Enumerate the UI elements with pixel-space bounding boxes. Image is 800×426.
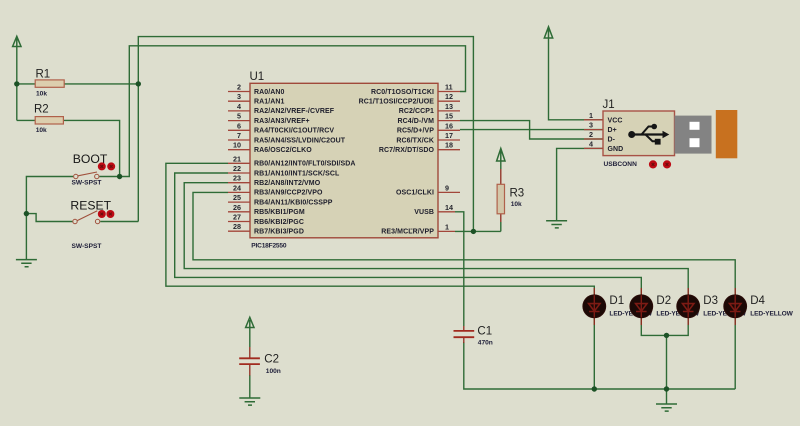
wire J1 GND to ground <box>557 148 603 220</box>
node D2/D3 mid junction <box>664 333 669 338</box>
svg-text:RB7/KBI3/PGD: RB7/KBI3/PGD <box>254 229 304 236</box>
svg-text:RC5/D+/VP: RC5/D+/VP <box>397 128 434 135</box>
wire D1 cathode down <box>593 316 595 389</box>
ground under J1 <box>546 221 567 228</box>
svg-text:RA4/T0CKI/C1OUT/RCV: RA4/T0CKI/C1OUT/RCV <box>254 128 334 135</box>
svg-text:VCC: VCC <box>608 117 623 124</box>
svg-text:24: 24 <box>233 183 241 192</box>
svg-text:12: 12 <box>445 92 453 101</box>
wire R1 left <box>17 83 35 85</box>
diode D4 <box>724 288 747 325</box>
svg-text:RA0/AN0: RA0/AN0 <box>254 89 285 96</box>
resistor R3 <box>497 169 524 222</box>
svg-text:OSC1/CLKI: OSC1/CLKI <box>396 190 434 197</box>
svg-text:9: 9 <box>445 183 449 192</box>
svg-text:28: 28 <box>233 222 241 231</box>
op-amp U1 PIC18F2550 body <box>250 71 439 250</box>
wire pin14 VUSB to C1 <box>455 212 464 326</box>
svg-text:3: 3 <box>237 92 241 101</box>
wire C1 bottom to LED ground bus <box>464 342 735 389</box>
svg-text:J1: J1 <box>603 99 615 111</box>
wire C2 bottom lead <box>249 375 251 398</box>
wire D2 cathode to mid node <box>641 316 666 335</box>
power arrow top-right <box>544 27 552 38</box>
node R1 left junction <box>14 81 19 86</box>
J1 red markers <box>649 160 657 168</box>
svg-text:4: 4 <box>237 102 241 111</box>
svg-text:26: 26 <box>233 203 241 212</box>
capacitor C1 <box>454 326 493 347</box>
svg-text:RC0/T1OSO/T1CKI: RC0/T1OSO/T1CKI <box>371 89 434 96</box>
svg-text:22: 22 <box>233 164 241 173</box>
J1 USB metal shell <box>675 116 712 154</box>
power arrow R3 <box>497 149 505 162</box>
U1 left pin numbers <box>233 83 241 232</box>
svg-text:11: 11 <box>445 83 453 92</box>
wire pin21 RB0 to D1 <box>166 163 594 297</box>
J1 USB plug body <box>716 110 738 158</box>
svg-text:GND: GND <box>608 146 624 153</box>
svg-text:RC7/RX/DT/SDO: RC7/RX/DT/SDO <box>379 147 435 154</box>
wire VCC rail left (arrow to R1/R2) <box>16 47 18 121</box>
U1 right pin numbers <box>445 83 453 232</box>
svg-text:7: 7 <box>237 131 241 140</box>
svg-text:13: 13 <box>445 102 453 111</box>
svg-text:C1: C1 <box>477 326 492 338</box>
svg-text:25: 25 <box>233 193 241 202</box>
svg-text:D+: D+ <box>608 127 617 134</box>
svg-text:RA1/AN1: RA1/AN1 <box>254 99 285 106</box>
LED D3 labels <box>703 295 746 318</box>
wire BOOT left to ground rail <box>26 177 73 260</box>
svg-text:RC6/TX/CK: RC6/TX/CK <box>396 137 434 144</box>
power arrow C2 <box>246 317 254 327</box>
wire R1/RESET net vertical and top run to MCLR <box>138 37 473 232</box>
svg-text:16: 16 <box>445 121 453 130</box>
svg-text:5: 5 <box>237 112 241 121</box>
LED D1 labels <box>609 295 652 318</box>
svg-text:R2: R2 <box>34 104 49 116</box>
svg-text:10k: 10k <box>36 91 47 98</box>
U1 left pin names <box>254 89 356 236</box>
wire R3 top stem <box>500 161 502 169</box>
svg-text:SW-SPST: SW-SPST <box>72 180 102 187</box>
svg-text:RB4/AN11/KBI0/CSSPP: RB4/AN11/KBI0/CSSPP <box>254 199 333 206</box>
diode D1 <box>583 288 606 325</box>
svg-text:27: 27 <box>233 213 241 222</box>
wire R2 left <box>17 119 35 121</box>
svg-text:R1: R1 <box>36 69 51 81</box>
svg-text:17: 17 <box>445 131 453 140</box>
wire pin1 MCLR to R3 <box>455 230 501 232</box>
wire BOOT right to top bus to pin11 <box>99 46 465 177</box>
U1 right pin stubs <box>438 92 460 232</box>
svg-text:100n: 100n <box>266 368 281 375</box>
svg-text:2: 2 <box>589 130 593 139</box>
wire pin16 RC5 to J1 D+ <box>460 129 603 131</box>
svg-text:470n: 470n <box>478 340 493 347</box>
connector J1 USBCONN body <box>603 99 675 168</box>
svg-text:LED-YELLOW: LED-YELLOW <box>750 311 793 318</box>
node D1 ground junction <box>592 386 597 391</box>
svg-text:RB6/KBI2/PGC: RB6/KBI2/PGC <box>254 219 304 226</box>
wire C2 top lead <box>249 328 251 348</box>
svg-text:RA2/AN2/VREF-/CVREF: RA2/AN2/VREF-/CVREF <box>254 108 335 115</box>
svg-text:R3: R3 <box>510 188 525 200</box>
wire R3 lead bottom green part <box>500 222 502 231</box>
wire ground rail jog to RESET left <box>26 214 72 222</box>
svg-text:SW-SPST: SW-SPST <box>72 243 102 250</box>
J1 pin numbers <box>589 111 593 149</box>
wire pin24 RB3 to D4 <box>193 192 735 297</box>
svg-text:C2: C2 <box>264 354 279 366</box>
svg-text:4: 4 <box>589 139 593 148</box>
svg-text:10: 10 <box>233 141 241 150</box>
svg-text:RC2/CCP1: RC2/CCP1 <box>399 108 434 115</box>
svg-text:RA5/AN4/SS/LVDIN/C2OUT: RA5/AN4/SS/LVDIN/C2OUT <box>254 137 346 144</box>
wire D4 cathode down <box>734 316 736 389</box>
svg-text:10k: 10k <box>511 201 522 208</box>
svg-text:D2: D2 <box>656 295 671 307</box>
wire mid node down to ground <box>666 335 668 404</box>
svg-text:6: 6 <box>237 121 241 130</box>
svg-text:1: 1 <box>445 222 449 231</box>
svg-text:3: 3 <box>589 121 593 130</box>
node BOOT junction <box>117 174 122 179</box>
svg-text:RB3/AN9/CCP2/VPO: RB3/AN9/CCP2/VPO <box>254 190 323 197</box>
wire pin22 RB1 to D2 <box>175 173 642 297</box>
svg-text:D1: D1 <box>609 295 624 307</box>
svg-text:RA3/AN3/VREF+: RA3/AN3/VREF+ <box>254 118 310 125</box>
svg-text:2: 2 <box>237 83 241 92</box>
switch RESET SW-SPST <box>70 199 114 251</box>
U1 right pin names <box>359 89 435 236</box>
diode D3 <box>677 288 700 325</box>
diode D2 <box>630 288 653 325</box>
J1 USB trident icon <box>632 127 665 142</box>
svg-text:14: 14 <box>445 203 453 212</box>
wire R1 output to top bus <box>64 83 138 85</box>
svg-text:18: 18 <box>445 141 453 150</box>
svg-text:USBCONN: USBCONN <box>604 161 638 168</box>
svg-text:RE3/MCLR/VPP: RE3/MCLR/VPP <box>381 229 434 236</box>
svg-text:PIC18F2550: PIC18F2550 <box>251 243 287 250</box>
wire pin23 RB2 to D3 <box>184 183 688 297</box>
svg-text:VUSB: VUSB <box>414 209 434 216</box>
U1 left pin stubs <box>228 92 250 232</box>
ground under LEDs <box>656 404 677 411</box>
svg-text:D3: D3 <box>703 295 718 307</box>
svg-text:RC4/D-/VM: RC4/D-/VM <box>398 118 435 125</box>
LED D4 labels <box>750 295 793 318</box>
svg-text:RC1/T1OSI/CCP2/UOE: RC1/T1OSI/CCP2/UOE <box>359 99 435 106</box>
svg-text:U1: U1 <box>250 71 265 83</box>
LED D2 labels <box>656 295 699 318</box>
svg-text:RB1/AN10/INT1/SCK/SCL: RB1/AN10/INT1/SCK/SCL <box>254 170 340 177</box>
wire D3 cathode to mid node <box>667 316 689 335</box>
node MCLR/R3 junction <box>471 229 476 234</box>
J1 pin names <box>608 117 624 153</box>
node LED bus ground junction <box>664 386 669 391</box>
J1 pin stubs <box>584 120 603 149</box>
svg-text:1: 1 <box>589 111 593 120</box>
wire RESET right to net <box>100 221 138 223</box>
svg-text:D-: D- <box>608 137 616 144</box>
wire pin15 RC4 to J1 D- <box>460 121 603 139</box>
svg-text:D4: D4 <box>750 295 765 307</box>
node ground rail junction <box>24 211 29 216</box>
wire R2 output down to BOOT <box>63 120 119 176</box>
svg-text:10k: 10k <box>36 127 47 134</box>
resistor R1 <box>35 69 64 98</box>
switch BOOT SW-SPST <box>72 152 116 187</box>
svg-text:RB0/AN12/INT0/FLT0/SDI/SDA: RB0/AN12/INT0/FLT0/SDI/SDA <box>254 161 356 168</box>
resistor R2 <box>34 104 63 135</box>
svg-text:RB2/AN8/INT2/VMO: RB2/AN8/INT2/VMO <box>254 180 321 187</box>
ground under C2 <box>239 398 260 405</box>
svg-text:RB5/KBI1/PGM: RB5/KBI1/PGM <box>254 209 305 216</box>
svg-text:21: 21 <box>233 154 241 163</box>
svg-text:23: 23 <box>233 174 241 183</box>
node R1 output junction <box>136 81 141 86</box>
svg-text:RESET: RESET <box>70 199 111 213</box>
svg-text:15: 15 <box>445 112 453 121</box>
svg-text:RA6/OSC2/CLKO: RA6/OSC2/CLKO <box>254 147 312 154</box>
wire VCC right rail to J1 VCC <box>549 38 603 120</box>
ground bottom-left <box>16 260 37 267</box>
capacitor C2 <box>239 347 281 376</box>
power arrow top-left <box>13 36 21 46</box>
